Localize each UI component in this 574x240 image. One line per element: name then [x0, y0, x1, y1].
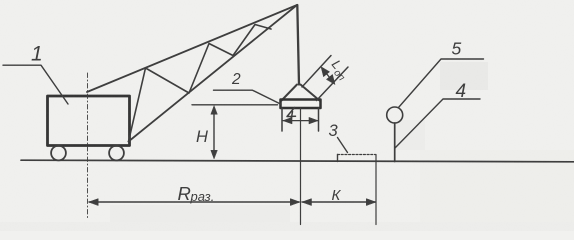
- extension line at notch right / K end: [375, 155, 377, 225]
- L op dimension arrow: [323, 69, 334, 83]
- R dimension line: [89, 201, 299, 203]
- boom upper chord: [87, 5, 297, 92]
- leader line label 1: [3, 65, 68, 104]
- cart wheel right: [109, 146, 124, 161]
- hook head bar: [281, 100, 321, 109]
- leader line label 3: [338, 138, 348, 153]
- sign circle (5): [387, 107, 403, 123]
- L op extension line B: [317, 67, 349, 101]
- H dimension arrow: [213, 108, 215, 157]
- hook width extension lines: [282, 108, 319, 131]
- leader line label 5: [399, 59, 484, 108]
- notch / obstacle (3) on ground: [337, 155, 339, 162]
- leader line label 2: [214, 90, 282, 104]
- boom mast tip: [297, 5, 299, 85]
- crane cart body (1): [48, 96, 130, 146]
- sign post (4): [394, 123, 396, 162]
- label L op (rotated): [326, 57, 353, 84]
- hook width dimension arrows: [283, 120, 318, 122]
- boom lattice web: [129, 25, 272, 142]
- ground line: [21, 160, 574, 162]
- hook head trapezoid: [282, 85, 320, 101]
- center line (dash-dot) of crane axis: [87, 73, 89, 220]
- cart wheel left: [51, 146, 66, 161]
- leader line label 4: [395, 99, 480, 148]
- L op extension line A: [302, 56, 331, 88]
- K dimension line: [302, 201, 376, 203]
- hand written 4 over hook dimension: [287, 108, 296, 121]
- hook centre line: [300, 108, 302, 225]
- H reference line: [192, 104, 278, 106]
- boom lower chord: [129, 5, 298, 142]
